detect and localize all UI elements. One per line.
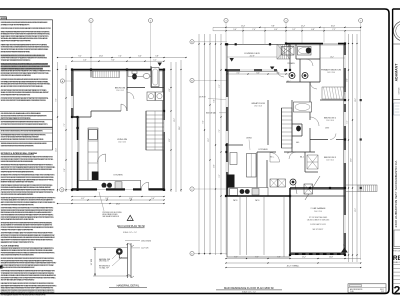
svg-text:9'-8": 9'-8" xyxy=(105,198,109,200)
svg-text:5'-2": 5'-2" xyxy=(219,84,221,87)
title block small white box xyxy=(394,230,400,247)
svg-text:10'-6": 10'-6" xyxy=(331,25,336,27)
svg-text:8'-0": 8'-0" xyxy=(214,164,216,167)
svg-text:8'-6": 8'-6" xyxy=(169,138,171,141)
svg-text:34" MIN: 34" MIN xyxy=(91,258,93,265)
svg-text:14.2 X 13.6: 14.2 X 13.6 xyxy=(327,72,335,74)
title block divider under logo xyxy=(393,43,400,45)
dishwasher hatch xyxy=(252,189,259,196)
ADU grid bubbles left xyxy=(65,80,72,82)
handrail detail dim line with arrows xyxy=(94,248,96,277)
garage door (dashes) xyxy=(295,253,299,255)
entry section diagonal xyxy=(305,176,320,200)
svg-text:9'-4": 9'-4" xyxy=(203,120,205,123)
svg-text:7'-6": 7'-6" xyxy=(219,129,221,132)
svg-text:10'-8": 10'-8" xyxy=(329,257,333,259)
ADU grid bubbles top xyxy=(90,23,92,69)
svg-text:13'-6": 13'-6" xyxy=(355,98,357,102)
ADU closet wall xyxy=(90,70,92,78)
svg-text:7'-2": 7'-2" xyxy=(64,123,66,126)
svg-text:6′-4″: 6′-4″ xyxy=(257,72,260,74)
svg-text:NOTED HEADERS VERIFY BLOCKING: NOTED HEADERS VERIFY BLOCKING ANY CODE xyxy=(1,93,31,96)
svg-text:PER JOISTS CONFORM JOB GLAZING: PER JOISTS CONFORM JOB GLAZING BEARING T… xyxy=(1,193,34,196)
svg-text:46'-4" OVERALL: 46'-4" OVERALL xyxy=(287,265,300,268)
hall bath tub xyxy=(294,102,312,112)
left wall nodes xyxy=(225,144,227,146)
interior dim row under front wall xyxy=(227,73,290,75)
svg-text:2023: 2023 xyxy=(381,291,384,293)
svg-text:9'-6": 9'-6" xyxy=(55,98,57,101)
svg-text:HAZARDOUS 24 ALL PER MIN CPC 2: HAZARDOUS 24 ALL PER MIN CPC 24 xyxy=(1,241,34,244)
svg-text:RES: RES xyxy=(393,255,400,262)
front entry door gap and arc xyxy=(277,69,284,72)
svg-text:5'-8": 5'-8" xyxy=(64,168,66,171)
svg-text:6'-4": 6'-4" xyxy=(274,29,278,31)
kitchen cabinet xyxy=(230,153,237,165)
bedroom2 / bedroom3 dividing wall xyxy=(310,139,328,141)
ADU bedroom door arc xyxy=(121,104,127,111)
svg-text:WORK CODE REPORT TO AT BEARING: WORK CODE REPORT TO AT BEARING AND OTHER… xyxy=(1,99,47,102)
svg-text:CRC R311.7.8: CRC R311.7.8 xyxy=(99,261,109,263)
svg-text:6'-8": 6'-8" xyxy=(311,29,315,31)
handrail detail wall lines xyxy=(128,243,132,278)
ADU refrigerator xyxy=(89,130,98,140)
svg-text:BEDROOM 2: BEDROOM 2 xyxy=(324,118,337,120)
svg-text:11.0 X 10.4: 11.0 X 10.4 xyxy=(326,120,334,122)
svg-text:EACH PRIOR STRAPPED CODE THE P: EACH PRIOR STRAPPED CODE THE PER xyxy=(1,40,32,43)
main top dimension lines xyxy=(213,26,361,28)
ADU entry door gap xyxy=(142,188,149,191)
handrail detail bracket xyxy=(119,255,127,258)
ADU stairs xyxy=(146,111,164,150)
ADU bath door gap and arc xyxy=(126,92,128,99)
keynote circle at entry xyxy=(290,179,296,185)
main bottom wall (kitchen) xyxy=(227,195,290,197)
svg-text:8'-0": 8'-0" xyxy=(129,198,133,200)
main grid bubbles left xyxy=(195,41,228,43)
svg-text:STRAPPED NAILING PER PROVIDE A: STRAPPED NAILING PER PROVIDE ALARMS SMOK… xyxy=(1,170,35,173)
svg-text:6'-0": 6'-0" xyxy=(138,56,142,58)
wall nodes right side xyxy=(344,138,346,140)
ADU exterior walls xyxy=(72,70,164,190)
deck railing line xyxy=(227,56,277,58)
svg-text:PRIMARY BEDROOM: PRIMARY BEDROOM xyxy=(321,69,341,72)
svg-text:RETURN ENDS: RETURN ENDS xyxy=(99,266,110,268)
laundry washer X-box xyxy=(304,184,313,194)
bedroom3 closet shelving (hatched) xyxy=(307,155,318,169)
ADU kitchen counter column xyxy=(88,128,98,181)
stair wall xyxy=(291,100,293,152)
mud room walls xyxy=(257,151,276,153)
handrail detail wall break marks xyxy=(126,244,134,278)
main grid bubble lines top xyxy=(225,23,227,255)
svg-text:210 SF: 210 SF xyxy=(250,55,255,57)
svg-text:PER ANY PROVIDE TO AND CONFORM: PER ANY PROVIDE TO AND CONFORM THE xyxy=(1,228,34,231)
main left dimension lines xyxy=(198,34,200,255)
svg-text:12'-2": 12'-2" xyxy=(174,118,176,122)
svg-text:PROVIDE SOLID BLOCKING: PROVIDE SOLID BLOCKING xyxy=(103,212,123,214)
notes emphasized paragraph xyxy=(1,63,48,65)
primary closet shelving (hatched) xyxy=(322,87,345,99)
title block logo circle xyxy=(394,21,400,41)
svg-text:W.I.C.: W.I.C. xyxy=(287,81,292,83)
ADU kitchen door arc xyxy=(98,154,106,162)
svg-text:HANDRAIL DETAIL: HANDRAIL DETAIL xyxy=(117,283,140,287)
svg-text:BEDROOM: BEDROOM xyxy=(115,88,126,90)
kitchen counter row above bottom wall xyxy=(228,188,268,197)
title block divider xyxy=(393,99,400,101)
svg-text:20.0 X 21.4: 20.0 X 21.4 xyxy=(314,211,322,213)
svg-text:UP: UP xyxy=(287,153,289,155)
great room / hall wall xyxy=(267,100,269,145)
ADU dishwasher xyxy=(115,182,122,189)
svg-text:COVERED DECK: COVERED DECK xyxy=(244,53,261,55)
svg-text:REV 2: REV 2 xyxy=(380,289,384,291)
bedroom2 door arc xyxy=(330,134,336,140)
ADU range (dark) xyxy=(92,172,99,181)
ADU left wall window gaps xyxy=(71,96,73,108)
kitchen sink blobs xyxy=(240,189,245,194)
main left exterior wall xyxy=(226,70,228,196)
svg-text:12'-6": 12'-6" xyxy=(99,56,104,58)
svg-text:2 CAR GARAGE: 2 CAR GARAGE xyxy=(310,207,326,210)
svg-text:15.4 X 13.0: 15.4 X 13.0 xyxy=(118,142,126,144)
svg-text:5'-2": 5'-2" xyxy=(153,59,157,61)
main house top wall (right section) xyxy=(286,43,345,45)
svg-text:24'-0": 24'-0" xyxy=(179,126,181,130)
handrail detail top note xyxy=(125,240,140,242)
main vertical wall between house and garage xyxy=(289,44,291,71)
primary bath toilet xyxy=(306,47,311,53)
svg-text:15'-2": 15'-2" xyxy=(355,208,357,212)
ADU nook wall step xyxy=(72,116,91,118)
top wall window xyxy=(323,42,338,44)
ADU bathroom sink xyxy=(143,74,150,79)
ADU bathroom toilet xyxy=(132,71,137,74)
primary bath tub xyxy=(298,47,312,56)
svg-text:4'-6": 4'-6" xyxy=(83,59,87,61)
ADU bedroom wall xyxy=(91,110,121,112)
ADU bottom wall windows xyxy=(97,188,106,191)
svg-text:24'-0": 24'-0" xyxy=(116,204,121,206)
svg-text:7′-2″: 7′-2″ xyxy=(237,72,240,74)
primary closet walls xyxy=(320,99,345,101)
top dim extension stubs xyxy=(242,27,244,31)
ADU bathtub xyxy=(152,68,160,87)
svg-text:9'-2": 9'-2" xyxy=(78,56,82,58)
wall corner nodes xyxy=(225,43,227,45)
svg-text:9'-2": 9'-2" xyxy=(219,174,221,177)
notes section bullet square xyxy=(0,266,3,269)
svg-text:6'-8": 6'-8" xyxy=(214,99,216,102)
primary bath walls xyxy=(295,44,297,60)
svg-text:SHALL CONDITIONS STRAPPED OF C: SHALL CONDITIONS STRAPPED OF CODE UNDER … xyxy=(1,254,35,257)
bedroom2 entry door arc xyxy=(310,117,319,126)
ADU wall corner nodes xyxy=(71,68,73,70)
svg-text:CPC PER CPC ALL UNLESS LOCATIO: CPC PER CPC ALL UNLESS LOCATIONS xyxy=(1,74,32,77)
svg-text:7'-4": 7'-4" xyxy=(118,56,122,58)
ADU right wall window xyxy=(163,120,165,132)
svg-text:TO AND ALL DIMENSIONS BLOCKING: TO AND ALL DIMENSIONS BLOCKING IN xyxy=(1,59,31,62)
ADU stair wall xyxy=(145,111,147,150)
kitchen range (dark) xyxy=(228,175,235,189)
keynote circles in hall xyxy=(289,73,295,79)
main right dimension lines xyxy=(348,34,350,262)
svg-text:WITH WATER IN REPORT JOB PER I: WITH WATER IN REPORT JOB PER IN xyxy=(1,218,35,221)
svg-text:19.0 X 15.8: 19.0 X 15.8 xyxy=(254,106,262,108)
ADU bathroom walls xyxy=(126,70,128,91)
svg-text:2: 2 xyxy=(394,284,400,298)
general notes panel border xyxy=(0,17,53,150)
main right exterior wall xyxy=(344,44,346,256)
kitchen island xyxy=(247,154,257,178)
svg-text:12.0 X 11.2: 12.0 X 11.2 xyxy=(116,90,124,92)
svg-text:KITCHEN: KITCHEN xyxy=(114,175,123,177)
svg-text:LIVING RM: LIVING RM xyxy=(117,139,128,141)
laundry machines xyxy=(270,179,278,187)
svg-text:11'-2": 11'-2" xyxy=(208,138,210,142)
covered deck outline xyxy=(227,44,286,70)
svg-text:BE ALL CRC DETECTORS CONFORM H: BE ALL CRC DETECTORS CONFORM HANGERS ROO… xyxy=(1,266,35,269)
svg-text:2406 AUBURTON WAY SACRAMENTO C: 2406 AUBURTON WAY SACRAMENTO CA xyxy=(394,159,398,227)
svg-text:5'-6": 5'-6" xyxy=(151,198,155,200)
ADU washer dryer boxes xyxy=(147,92,155,101)
hall bath walls xyxy=(299,59,301,82)
svg-text:7'-0": 7'-0" xyxy=(252,29,256,31)
svg-text:CEILING COMMON TO DWELLING: CEILING COMMON TO DWELLING xyxy=(307,219,329,221)
svg-text:7'-2": 7'-2" xyxy=(332,29,336,31)
svg-text:DINING: DINING xyxy=(246,138,252,140)
svg-text:11'-2": 11'-2" xyxy=(302,257,306,259)
svg-text:11.0 X 10.2: 11.0 X 10.2 xyxy=(326,160,334,162)
svg-text:JOISTS MONOXIDE OTHERWISE DOUB: JOISTS MONOXIDE OTHERWISE DOUBLE WATER A… xyxy=(1,203,35,206)
title block outer frame xyxy=(393,9,400,294)
svg-text:LINEN: LINEN xyxy=(325,128,329,130)
bedroom interior dim xyxy=(320,57,345,59)
title block small mark xyxy=(394,103,400,115)
svg-text:MIN 1/8" PER FT: MIN 1/8" PER FT xyxy=(313,229,324,231)
svg-text:24 SHALL LOCAL ROOM PARALLEL T: 24 SHALL LOCAL ROOM PARALLEL TO xyxy=(1,24,30,27)
deck keynote triangles xyxy=(230,58,234,62)
svg-text:5'-6": 5'-6" xyxy=(233,29,237,31)
door arcs by baths xyxy=(306,59,313,66)
svg-text:MAIN RESIDENCE FLOOR PLAN 180: MAIN RESIDENCE FLOOR PLAN 1800 SF xyxy=(224,286,274,290)
svg-text:6'-2": 6'-2" xyxy=(346,120,348,123)
deck dim extension stubs xyxy=(242,31,244,44)
deck posts xyxy=(235,43,237,45)
svg-text:11'-4": 11'-4" xyxy=(241,25,246,27)
svg-text:5'-2": 5'-2" xyxy=(292,29,296,31)
svg-text:KITCHEN: KITCHEN xyxy=(259,149,268,151)
AC unit triangle xyxy=(341,248,348,253)
framing notes paragraphs xyxy=(1,155,52,158)
svg-text:UNDER PER SLEEPING IN NOTED SC: UNDER PER SLEEPING IN NOTED SCHEDULE ALL xyxy=(1,160,33,163)
svg-text:4'-0": 4'-0" xyxy=(169,88,171,91)
handrail detail rail (dark circle) xyxy=(116,248,123,255)
svg-text:10'-0": 10'-0" xyxy=(350,158,352,162)
notes panel divider rows xyxy=(0,111,53,113)
svg-text:CONFORM LOCAL OF WORK UNLESS H: CONFORM LOCAL OF WORK UNLESS HALLWAY CON… xyxy=(1,27,52,30)
svg-text:5'-8": 5'-8" xyxy=(155,56,159,58)
svg-text:EXTERIOR & INTERIOR WALL FRAMI: EXTERIOR & INTERIOR WALL FRAMING xyxy=(1,152,38,155)
svg-text:NOTED ALARMS EDGES PER PROVIDE: NOTED ALARMS EDGES PER PROVIDE DETECTORS… xyxy=(1,294,47,297)
main grid bubbles top xyxy=(224,18,228,22)
svg-text:GREAT ROOM: GREAT ROOM xyxy=(251,102,265,105)
powder toilet xyxy=(296,126,301,132)
notes highlighted line xyxy=(1,55,45,57)
primary bath shower (X box) xyxy=(282,47,295,56)
svg-text:W.I.C.: W.I.C. xyxy=(270,157,275,159)
ADU kitchen bottom counter xyxy=(79,180,141,188)
svg-text:BEDROOM 3: BEDROOM 3 xyxy=(324,157,337,159)
deck stairs (hatched) xyxy=(277,44,290,59)
svg-text:ADU FLOOR PLAN 700 SF: ADU FLOOR PLAN 700 SF xyxy=(117,225,146,228)
ADU bottom dimension lines xyxy=(72,196,164,198)
main bottom dimension lines xyxy=(226,258,361,260)
ADU left dimension lines xyxy=(57,62,59,192)
title block revision table xyxy=(393,264,400,266)
handrail detail leader notes xyxy=(112,254,117,259)
legend stamp box bottom right xyxy=(348,284,386,293)
svg-text:6'-1": 6'-1" xyxy=(81,198,85,200)
svg-text:BEARING SHALL ALL CARBON ALL O: BEARING SHALL ALL CARBON ALL ON GLAZING xyxy=(1,181,35,184)
great room / kitchen separating wall xyxy=(227,144,243,146)
ADU keynote triangle at deck xyxy=(158,63,162,67)
garage walls xyxy=(289,188,291,255)
svg-text:11'-4": 11'-4" xyxy=(55,148,57,152)
svg-text:8'-4": 8'-4" xyxy=(346,78,348,81)
svg-text:FOR CONSTR: FOR CONSTR xyxy=(393,250,400,252)
door arcs hall xyxy=(270,153,280,163)
ADU bottom wall redraw (over counters) xyxy=(72,189,164,191)
svg-text:IN OF BE BE AT SHALL PROVIDED: IN OF BE BE AT SHALL PROVIDED xyxy=(1,279,36,282)
main house front wall (under deck) xyxy=(227,69,286,71)
svg-text:6X6 POST: 6X6 POST xyxy=(199,97,206,99)
svg-text:ADAMANT: ADAMANT xyxy=(395,63,399,82)
ADU entry door arc xyxy=(141,182,149,190)
svg-text:1-1/2" CLR: 1-1/2" CLR xyxy=(141,248,149,250)
svg-text:9'-0": 9'-0" xyxy=(111,59,115,61)
ADU right dimension lines xyxy=(170,62,172,192)
svg-text:9'-8": 9'-8" xyxy=(271,25,275,27)
ADU bath vanity counter xyxy=(128,71,151,77)
fridge box xyxy=(230,189,238,196)
svg-text:NOTES: NOTES xyxy=(1,18,8,20)
main stairs xyxy=(282,108,293,148)
ADU top dimension lines xyxy=(58,57,187,59)
general notes paragraphs xyxy=(1,21,47,24)
svg-text:2X BLOCKING: 2X BLOCKING xyxy=(141,240,152,242)
ADU bedroom closet shelving (hatched) xyxy=(93,71,120,78)
powder walls xyxy=(292,123,302,125)
ADU kitchen sink (dark) xyxy=(102,183,107,188)
svg-text:ALL ALL NO MIN CODE LOCATIONS: ALL ALL NO MIN CODE LOCATIONS DETECTORS … xyxy=(1,85,44,88)
svg-text:12'-2": 12'-2" xyxy=(301,25,306,27)
title block divider xyxy=(393,248,400,250)
svg-text:INSTALLED ANY HEATER MINIMUM A: INSTALLED ANY HEATER MINIMUM AT SHALL xyxy=(1,50,30,53)
exterior entry steps right side xyxy=(358,185,377,192)
svg-text:14′-2″: 14′-2″ xyxy=(330,56,334,58)
patio outline xyxy=(227,196,290,257)
